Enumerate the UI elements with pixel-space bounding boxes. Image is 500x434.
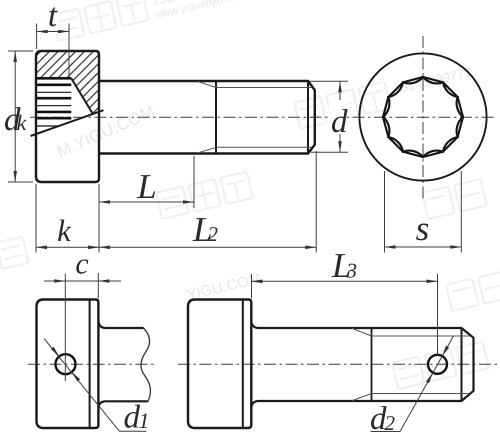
screw axis (top views)	[30, 116, 497, 118]
head chamfer line near bearing face	[89, 300, 91, 429]
top-right end view	[359, 53, 486, 180]
axis of bottom-right screw view	[178, 363, 498, 365]
thread minor diameter line top	[216, 87, 312, 89]
thread full-form boundary line	[371, 328, 373, 401]
chamfer edge line at shank end	[461, 328, 463, 401]
dimension c: extension line	[97, 273, 99, 299]
12-point socket: inscribed circle	[383, 77, 463, 157]
shank outline with end chamfer	[99, 81, 315, 154]
thread minor diameter line top	[372, 335, 470, 337]
socket bottom cone line	[71, 78, 93, 114]
thread minor diameter line bottom	[216, 146, 312, 148]
leader d1	[44, 339, 120, 432]
head chamfer line near bearing face	[242, 300, 244, 429]
shank outline with end chamfer	[251, 322, 473, 408]
cross hole d1	[56, 354, 76, 374]
12-point socket: dodecagon	[383, 77, 463, 157]
dimension L2: dimension line	[99, 246, 316, 248]
dimension k: extension lines	[35, 184, 37, 253]
head outline	[36, 51, 99, 182]
dimension c: dimension line with outside arrows	[44, 280, 121, 282]
bottom-left head view	[37, 274, 151, 429]
dimension dk: dimension line	[14, 51, 16, 182]
head outline	[37, 300, 99, 429]
dimension L: extension line	[193, 156, 195, 208]
cross hole d2	[428, 355, 447, 374]
thread runout diagonal top	[197, 81, 216, 87]
dimension L: dimension line	[99, 201, 194, 203]
thread runout diagonal bottom	[197, 147, 216, 153]
section hatching of head	[36, 51, 99, 114]
broken shank with wavy break line	[98, 322, 148, 408]
vertical centerline of end-view circle	[422, 36, 424, 199]
top-left side view	[31, 51, 315, 182]
dimension L3: dimension line	[252, 280, 438, 282]
axis of bottom-left head view	[28, 363, 157, 365]
hole vertical centerline	[64, 274, 66, 382]
bottom-right full screw view	[188, 300, 474, 429]
socket serration lines	[36, 77, 71, 80]
partial-section break line	[31, 110, 104, 136]
dimension t: dimension line	[37, 31, 69, 33]
dimension dk: extension lines	[8, 50, 33, 52]
thread minor diameter line bottom	[372, 393, 470, 395]
thread runout diagonal top	[352, 328, 372, 336]
dimension L3: extension lines	[251, 274, 253, 299]
thread runout diagonal bottom	[352, 394, 372, 401]
head outline	[188, 300, 251, 429]
head outer circle	[359, 53, 486, 180]
dimension d: dimension line	[339, 81, 341, 152]
leader d2	[371, 431, 401, 433]
dimension L2: extension line	[315, 151, 317, 253]
dimension k: dimension line	[36, 246, 99, 248]
dimension t: extension lines	[36, 24, 38, 50]
centerline main axis	[28, 36, 498, 364]
thread full-form boundary line	[215, 81, 217, 154]
dimension s: dimension line	[385, 246, 462, 248]
wavy break line of shank	[141, 328, 150, 401]
dimension d: extension lines	[309, 80, 348, 82]
dimension s: extension lines	[384, 171, 386, 253]
chamfer edge line at shank end	[307, 81, 309, 154]
